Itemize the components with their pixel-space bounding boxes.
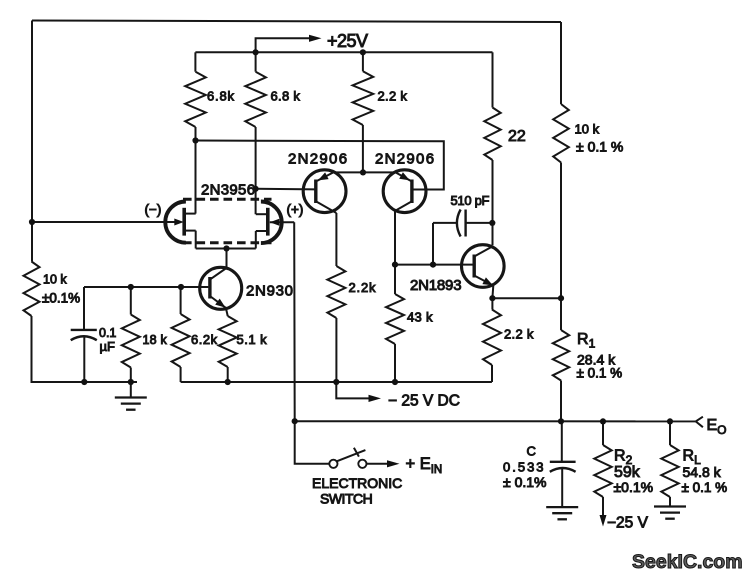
svg-text:5.1 k: 5.1 k xyxy=(237,332,268,347)
svg-text:10 k: 10 k xyxy=(575,122,600,137)
svg-text:(+): (+) xyxy=(287,202,304,217)
svg-text:510 pF: 510 pF xyxy=(451,193,490,208)
svg-text:2.2 k: 2.2 k xyxy=(378,89,408,104)
svg-text:0.1: 0.1 xyxy=(99,326,116,340)
svg-text:0.533: 0.533 xyxy=(503,460,546,475)
svg-text:ELECTRONIC: ELECTRONIC xyxy=(312,475,402,491)
svg-text:2.2k: 2.2k xyxy=(349,280,377,295)
svg-text:10 k: 10 k xyxy=(43,273,67,287)
svg-text:µF: µF xyxy=(100,339,115,354)
svg-text:2N1893: 2N1893 xyxy=(410,277,461,294)
svg-text:± 0.1 %: ± 0.1 % xyxy=(577,365,623,380)
svg-text:6.8 k: 6.8 k xyxy=(271,89,301,104)
svg-text:6.2k: 6.2k xyxy=(191,332,218,347)
svg-text:−25 V: −25 V xyxy=(607,514,649,531)
svg-text:− 25 V DC: − 25 V DC xyxy=(388,393,460,410)
svg-text:SeekIC.com: SeekIC.com xyxy=(632,551,743,573)
svg-text:± 0.1%: ± 0.1% xyxy=(503,474,546,490)
svg-text:2N2906: 2N2906 xyxy=(375,150,435,167)
svg-text:C: C xyxy=(527,444,536,459)
svg-text:54.8 k: 54.8 k xyxy=(683,464,722,480)
svg-text:± 0.1 %: ± 0.1 % xyxy=(682,480,728,495)
svg-text:2N930: 2N930 xyxy=(246,282,294,299)
svg-text:SWITCH: SWITCH xyxy=(320,491,372,507)
svg-text:43 k: 43 k xyxy=(407,309,433,324)
svg-text:2N3956: 2N3956 xyxy=(201,182,255,199)
svg-text:± 0.1 %: ± 0.1 % xyxy=(576,139,623,155)
svg-text:2.2 k: 2.2 k xyxy=(504,327,534,342)
svg-text:+25V: +25V xyxy=(327,31,368,51)
svg-text:±0.1%: ±0.1% xyxy=(42,290,80,305)
svg-text:22: 22 xyxy=(508,128,526,145)
svg-text:(−): (−) xyxy=(145,202,162,217)
svg-text:6.8k: 6.8k xyxy=(207,89,235,104)
svg-text:±0.1%: ±0.1% xyxy=(614,479,654,495)
svg-text:18 k: 18 k xyxy=(143,333,168,347)
svg-text:2N2906: 2N2906 xyxy=(288,150,348,167)
